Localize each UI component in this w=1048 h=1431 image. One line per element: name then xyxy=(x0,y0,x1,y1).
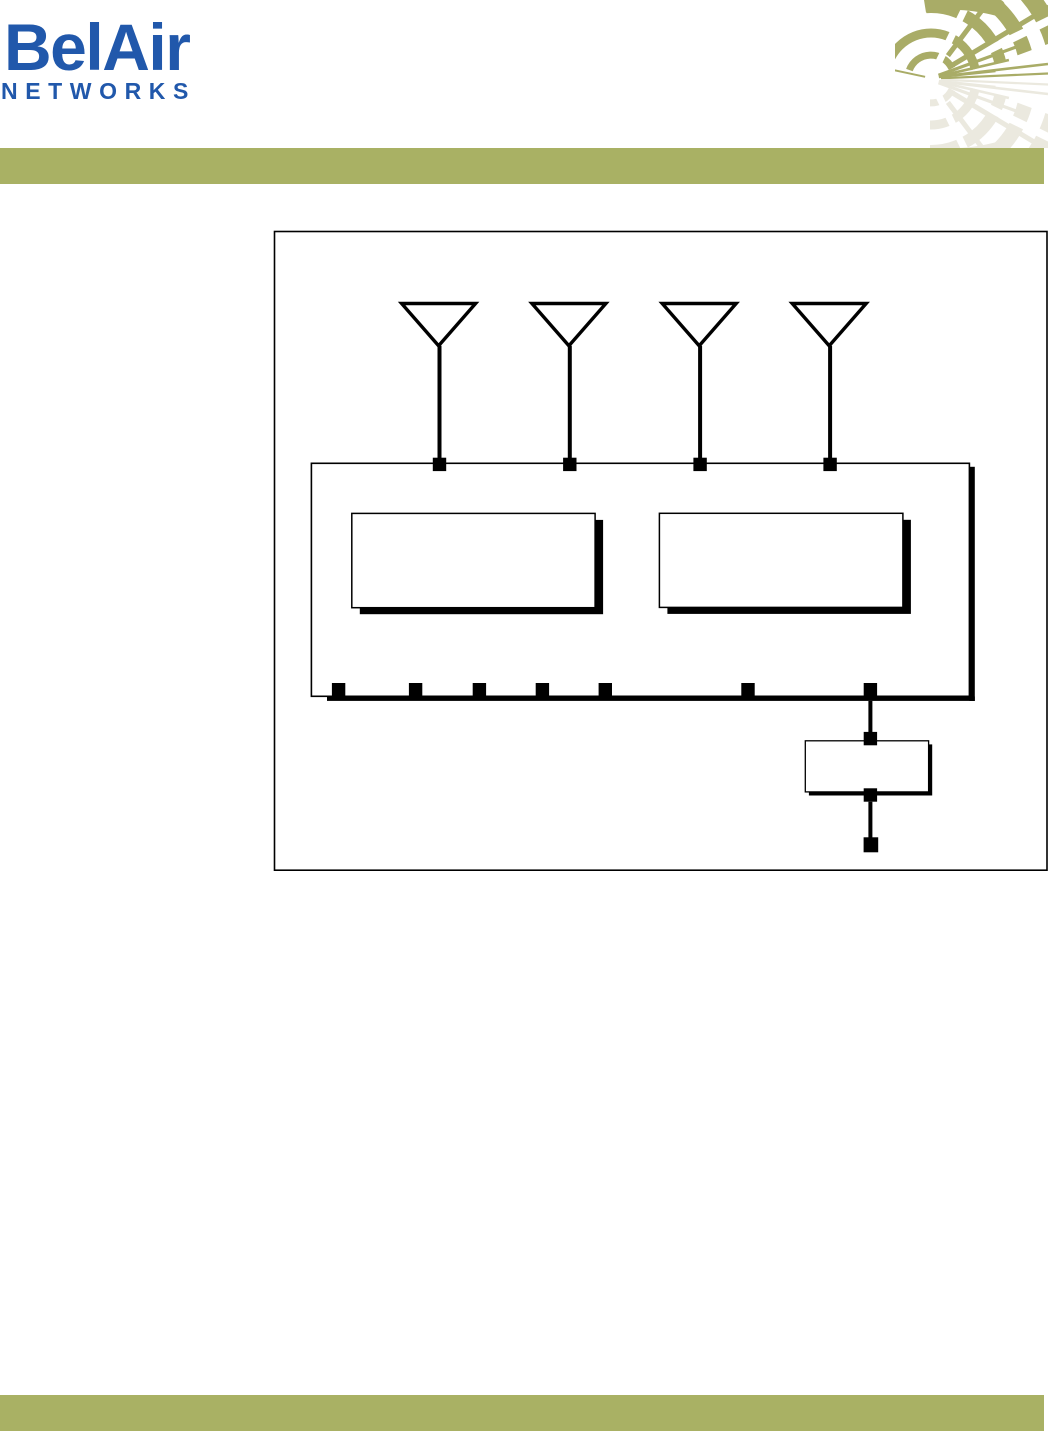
bus pad 6 xyxy=(741,683,754,697)
node antenna port 4 xyxy=(823,458,836,471)
wire antenna AN2 feed line xyxy=(568,346,572,459)
swirl graphic top-right xyxy=(895,0,1048,148)
backplane bus bar xyxy=(327,697,975,701)
antenna AN3 xyxy=(662,304,736,346)
bus pad 3 xyxy=(473,683,486,697)
unit box xyxy=(311,463,969,696)
bus pad 5 xyxy=(599,683,612,697)
wire antenna AN1 feed line xyxy=(438,346,442,459)
unit box shadow right xyxy=(969,467,974,701)
node antenna port 2 xyxy=(563,458,576,471)
bus pad 1 xyxy=(332,683,345,697)
wire antenna AN3 feed line xyxy=(698,346,702,459)
radio module right shadow xyxy=(667,520,911,614)
small box xyxy=(805,741,928,792)
small box shadow xyxy=(809,744,932,795)
wire bus to small box xyxy=(868,701,872,734)
antenna AN1 xyxy=(402,304,476,346)
end pad xyxy=(864,837,879,852)
BelAir logo wordmark xyxy=(4,23,189,71)
node antenna port 3 xyxy=(693,458,706,471)
antenna AN4 xyxy=(792,304,866,346)
radio module left xyxy=(352,513,595,607)
bus pad 4 xyxy=(536,683,549,697)
small box bottom pad xyxy=(864,788,877,801)
bus pad 7 xyxy=(864,683,877,697)
node antenna port 1 xyxy=(433,458,446,471)
wire antenna AN4 feed line xyxy=(828,346,832,459)
radio module left shadow xyxy=(360,520,603,614)
radio module right xyxy=(659,513,903,607)
antenna AN2 xyxy=(532,304,606,346)
small box top pad xyxy=(864,732,877,745)
wire small box to end pad xyxy=(868,802,872,838)
BelAir logo NETWORKS line xyxy=(1,83,196,100)
figure frame xyxy=(275,232,1048,871)
bus pad 2 xyxy=(409,683,422,697)
footer olive bar xyxy=(0,1395,1044,1431)
header olive bar xyxy=(0,148,1044,184)
